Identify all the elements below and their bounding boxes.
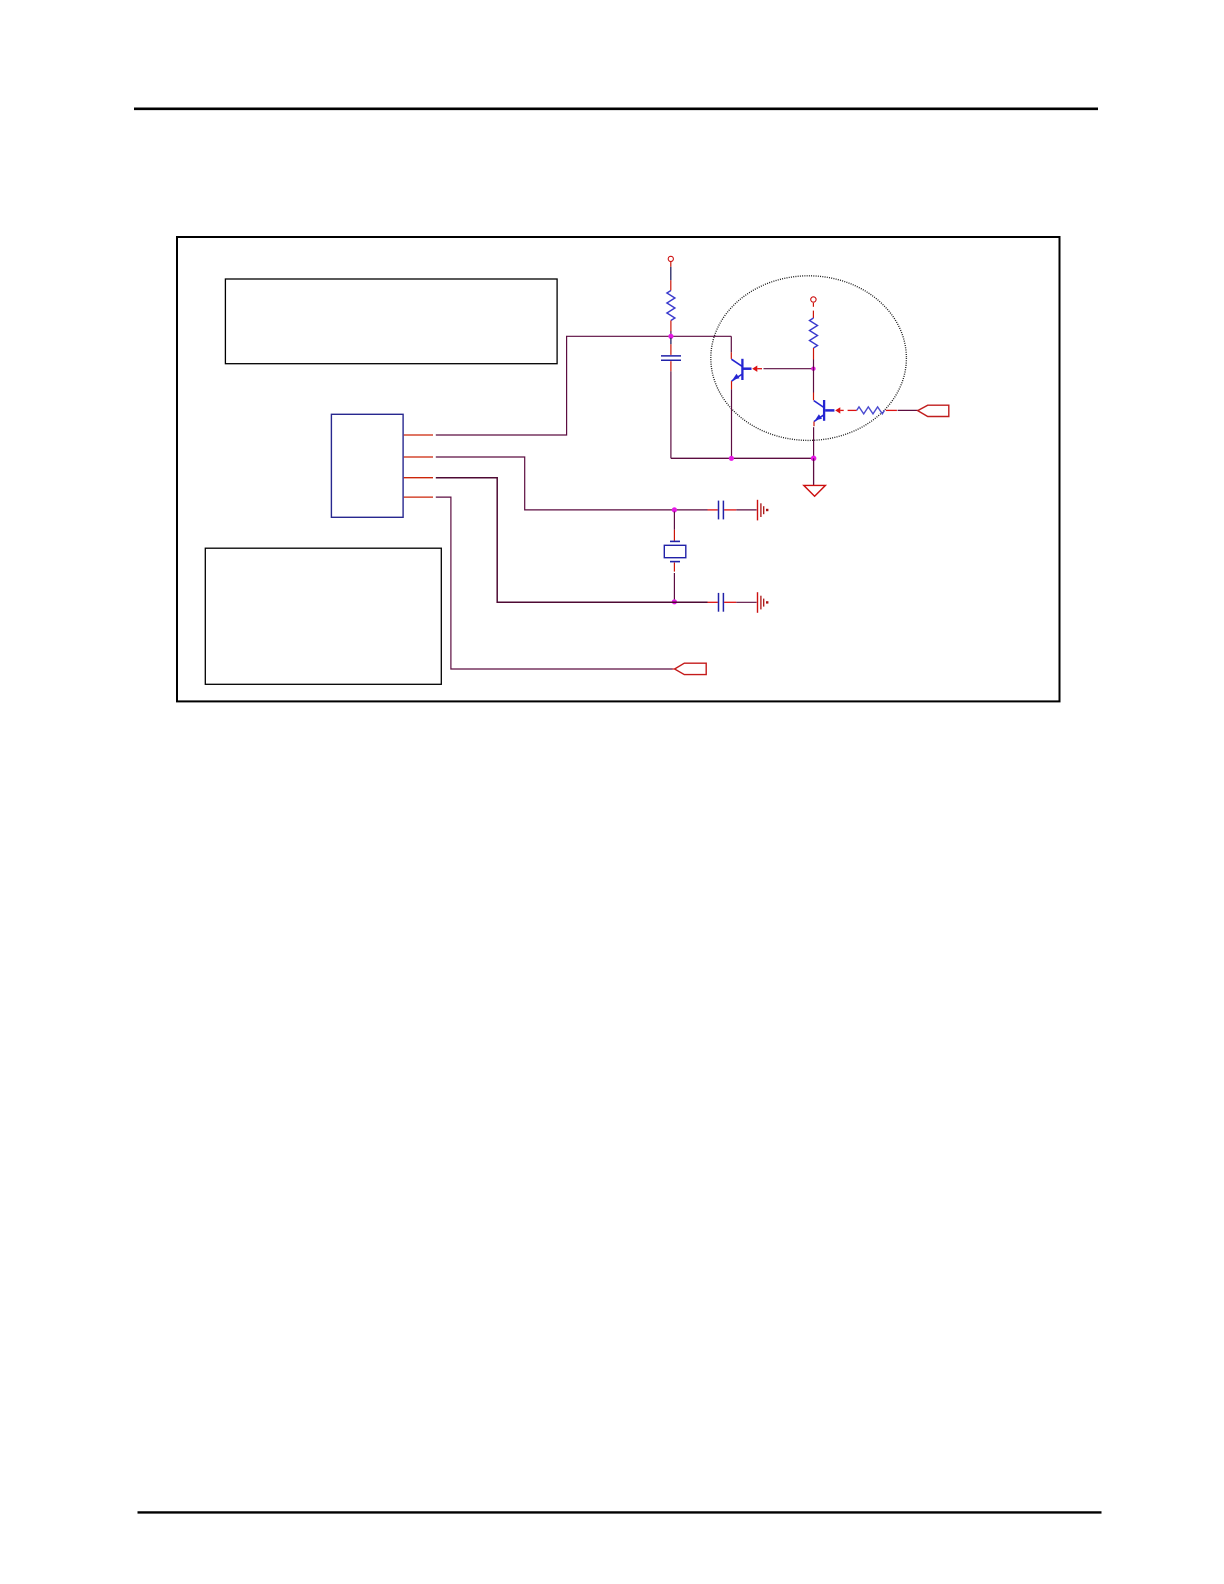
wire: pin3 to bus2: [436, 478, 708, 603]
crystal Y1: [664, 541, 686, 561]
wire: crystal to bus2: [673, 563, 675, 572]
U1 pin 3: [404, 477, 433, 479]
wire: red lead to C3: [708, 601, 718, 603]
wire: C1 bottom to bus: [670, 361, 672, 371]
node D junction: [672, 599, 677, 604]
U1 pin 4: [404, 496, 433, 498]
capacitor C2: [718, 501, 720, 520]
junction bus/Q1: [729, 456, 734, 461]
wire: node C down to crystal: [673, 512, 675, 530]
highlight ellipse (dotted): [711, 276, 907, 441]
terminal circle T2: [811, 297, 816, 302]
ground: [804, 485, 826, 496]
wire: C2 to chassis: [724, 509, 736, 511]
wire: node A down to C1: [670, 338, 672, 345]
port P1 (left-pointing): [918, 405, 949, 416]
port P2 (left-pointing): [675, 663, 707, 674]
wire: R1 bottom to node A: [670, 321, 672, 332]
note box (bottom-left): [205, 548, 441, 684]
wire: red lead to C2: [708, 509, 718, 511]
transistor Q2: [814, 400, 835, 422]
wire: R2 bottom to node B: [813, 348, 815, 360]
wire: pin4 to port P2: [436, 497, 673, 669]
wire: red dash to R4: [848, 409, 857, 411]
wire: C3 to chassis: [724, 601, 736, 603]
wire: R4 to port: [886, 409, 897, 411]
capacitor C1: [661, 355, 681, 357]
wire: Q2 emitter to bus: [813, 422, 815, 427]
footer rule: [138, 1511, 1102, 1513]
IC U1 body: [331, 414, 403, 517]
wire: to ground: [813, 458, 815, 485]
resistor R4 (horizontal): [857, 407, 885, 414]
wire: Q1 emitter to bus: [731, 381, 733, 389]
node A junction: [668, 334, 673, 339]
U1 pin 1: [404, 434, 433, 436]
resistor R1 (vertical): [667, 291, 675, 321]
wire: T2 to R2: [812, 303, 814, 307]
schematic frame: [177, 237, 1060, 701]
wire: T1 to R1 (red/dark segments): [670, 262, 672, 267]
wire: Q1 collector drop: [730, 336, 732, 352]
wire: Q1 base to node B: [764, 368, 814, 370]
transistor Q1: [731, 359, 751, 381]
wire: node B to Q2 collector: [813, 369, 815, 393]
U1 pin 2: [404, 456, 433, 458]
resistor R2 (vertical): [810, 318, 818, 348]
terminal circle T1: [668, 256, 673, 261]
chassis ground 2: [758, 592, 769, 613]
Q2 base pin arrow (red): [835, 407, 840, 413]
chassis ground 1: [758, 500, 769, 521]
Q1 base pin arrow (red): [752, 366, 757, 372]
junction bus/ground: [811, 456, 817, 462]
note box (top-left): [225, 279, 557, 364]
wire: pin1 to node A (R1/C1 top): [436, 336, 732, 435]
wire: pin2 to crystal node: [436, 457, 708, 510]
node B junction: [811, 367, 815, 371]
wire: emitter bus (bottom of mirror): [671, 457, 814, 459]
capacitor C3: [718, 593, 720, 612]
node C junction: [672, 507, 677, 512]
header rule: [134, 108, 1098, 111]
